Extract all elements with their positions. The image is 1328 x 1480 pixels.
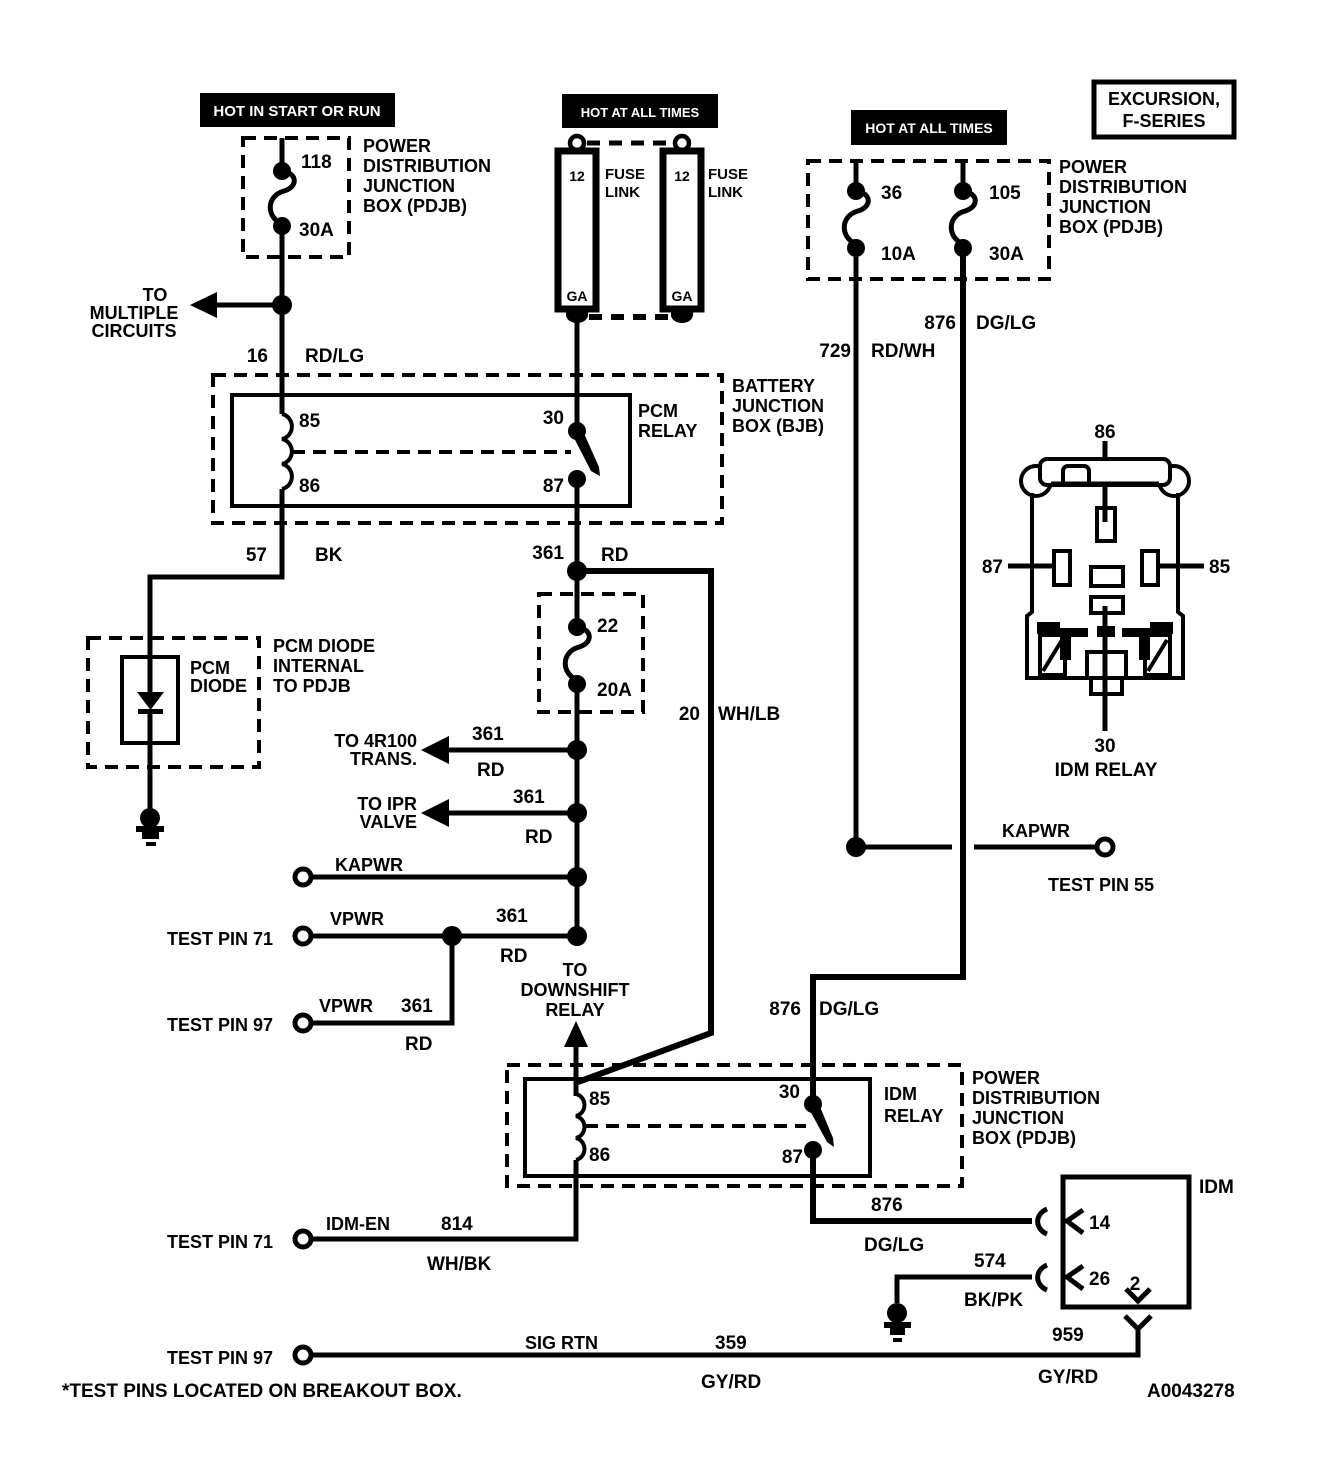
wire to IPR valve with arrowhead: [440, 811, 577, 816]
PCM relay switch pin 87: [568, 470, 586, 488]
fuse link 1 (12 GA): [558, 136, 596, 323]
svg-text:361: 361: [513, 787, 545, 808]
TEST PIN 55 connector circle: [1097, 839, 1113, 855]
svg-text:86: 86: [1094, 422, 1115, 443]
fuse F22 element: [565, 618, 589, 693]
PCM relay switch pin 30: [568, 422, 586, 440]
wire from fuse 118 down to PCM relay pin 85: [280, 226, 285, 414]
svg-text:LINK: LINK: [605, 184, 640, 201]
svg-text:PCM: PCM: [190, 658, 230, 678]
IDM relay switch blade: [808, 1102, 834, 1147]
pin 87 slot: [1054, 551, 1070, 585]
svg-text:87: 87: [543, 476, 564, 497]
svg-text:12: 12: [569, 168, 585, 184]
svg-text:HOT AT ALL TIMES: HOT AT ALL TIMES: [865, 120, 993, 136]
ground (PCM diode): [136, 808, 164, 846]
svg-text:359: 359: [715, 1333, 747, 1354]
wire to downshift relay with up arrowhead: [564, 1021, 588, 1047]
svg-text:26: 26: [1089, 1269, 1110, 1290]
IDM box: [1063, 1177, 1189, 1307]
wire IDM relay pin 87 to IDM pin 14 (876 DG/LG): [813, 1150, 1032, 1221]
svg-text:BOX (PDJB): BOX (PDJB): [1059, 217, 1163, 237]
bracket right black tab: [1150, 622, 1173, 634]
svg-text:TO: TO: [143, 285, 168, 305]
svg-text:36: 36: [881, 183, 902, 204]
svg-text:GY/RD: GY/RD: [701, 1372, 761, 1393]
svg-text:959: 959: [1052, 1325, 1084, 1346]
fuse link 2 (12 GA): [663, 136, 701, 323]
svg-text:85: 85: [299, 411, 321, 432]
wire 574 BK/PK to pin 26: [897, 1277, 1032, 1303]
SECTION: IDM relay pictorial (connector view): [982, 422, 1231, 781]
label BATTERY JUNCTION BOX (BJB): [732, 376, 824, 436]
center slot: [1091, 567, 1123, 586]
svg-text:574: 574: [974, 1251, 1006, 1272]
svg-text:VALVE: VALVE: [360, 812, 417, 832]
svg-text:20: 20: [679, 704, 700, 725]
svg-text:16: 16: [247, 346, 268, 367]
PCM relay coil: [282, 414, 292, 489]
svg-text:DG/LG: DG/LG: [819, 999, 879, 1020]
banner HOT AT ALL TIMES (right): [851, 110, 1007, 145]
wire BIG RTN 359 GY/RD: [312, 1327, 1138, 1355]
svg-text:RELAY: RELAY: [545, 1000, 604, 1020]
svg-text:VPWR: VPWR: [330, 909, 384, 929]
fuse F105 top stub: [961, 161, 966, 192]
svg-text:30: 30: [543, 408, 564, 429]
svg-text:22: 22: [597, 616, 618, 637]
svg-text:GA: GA: [567, 288, 588, 304]
label POWER DISTRIBUTION JUNCTION BOX (PDJB) bottom: [972, 1068, 1100, 1148]
svg-text:PCM: PCM: [638, 401, 678, 421]
svg-text:FUSE: FUSE: [708, 166, 748, 183]
node junction KAPWR right: [846, 837, 866, 857]
node junction 361: [567, 561, 587, 581]
svg-text:TEST PIN 71: TEST PIN 71: [167, 929, 273, 949]
svg-text:10A: 10A: [881, 244, 916, 265]
svg-text:TRANS.: TRANS.: [350, 749, 417, 769]
svg-text:JUNCTION: JUNCTION: [363, 176, 455, 196]
svg-text:F-SERIES: F-SERIES: [1122, 111, 1205, 131]
svg-text:GY/RD: GY/RD: [1038, 1367, 1098, 1388]
svg-text:KAPWR: KAPWR: [335, 855, 403, 875]
svg-text:87: 87: [982, 557, 1003, 578]
fuse F105 element: [951, 182, 975, 257]
label POWER DISTRIBUTION JUNCTION BOX (PDJB): [363, 136, 491, 216]
battery junction box BJB (dashed): [213, 375, 722, 523]
svg-text:TO 4R100: TO 4R100: [334, 731, 417, 751]
banner HOT AT ALL TIMES (middle): [562, 94, 718, 128]
svg-text:361: 361: [401, 996, 433, 1017]
svg-text:30: 30: [1094, 736, 1115, 757]
TEST PIN 71 connector circle (bottom): [295, 1231, 311, 1247]
svg-text:RELAY: RELAY: [884, 1106, 943, 1126]
svg-text:876: 876: [924, 313, 956, 334]
svg-text:85: 85: [589, 1089, 611, 1110]
cap cross line: [1051, 482, 1159, 487]
svg-text:57: 57: [246, 545, 267, 566]
svg-text:MULTIPLE: MULTIPLE: [90, 303, 179, 323]
dashed bus between fuse link tops: [587, 141, 672, 146]
svg-text:VPWR: VPWR: [319, 996, 373, 1016]
TEST PIN 97 connector circle (bottom): [295, 1347, 311, 1363]
svg-text:RD: RD: [500, 946, 527, 967]
wire fuse 118 top stub: [280, 138, 285, 172]
svg-text:BATTERY: BATTERY: [732, 376, 815, 396]
svg-text:IDM RELAY: IDM RELAY: [1055, 760, 1158, 781]
svg-text:EXCURSION,: EXCURSION,: [1108, 89, 1220, 109]
bracket right hatch box: [1145, 635, 1170, 675]
svg-text:DOWNSHIFT: DOWNSHIFT: [521, 980, 630, 1000]
relay cap ears: [1021, 466, 1051, 496]
center tab: [1087, 652, 1126, 694]
svg-text:105: 105: [989, 183, 1021, 204]
diode symbol: [137, 692, 164, 710]
wire PCM relay pin 86 down (57 BK): [150, 489, 282, 660]
PCM relay box: [232, 395, 630, 506]
bracket left black tab: [1037, 622, 1060, 634]
node junction to 4R100: [567, 740, 587, 760]
svg-text:BOX (PDJB): BOX (PDJB): [363, 196, 467, 216]
pin 86 slot: [1097, 508, 1115, 541]
svg-text:876: 876: [769, 999, 801, 1020]
svg-text:361: 361: [472, 724, 504, 745]
node junction to IPR: [567, 803, 587, 823]
relay cap lid: [1040, 459, 1170, 485]
svg-text:814: 814: [441, 1214, 473, 1235]
IDM relay switch pin 87: [804, 1141, 822, 1159]
svg-text:IDM-EN: IDM-EN: [326, 1214, 390, 1234]
svg-text:12: 12: [674, 168, 690, 184]
PCM diode solid box: [122, 657, 178, 743]
TEST PIN 71 connector circle: [295, 928, 311, 944]
svg-text:87: 87: [782, 1147, 803, 1168]
banner HOT IN START OR RUN: [200, 93, 395, 127]
svg-text:A0043278: A0043278: [1147, 1381, 1235, 1402]
svg-text:30A: 30A: [989, 244, 1024, 265]
svg-text:*TEST PINS LOCATED ON BREAKOUT: *TEST PINS LOCATED ON BREAKOUT BOX.: [62, 1381, 462, 1402]
bracket left inner black: [1060, 628, 1088, 637]
EXCURSION F-SERIES box: [1094, 82, 1234, 137]
svg-text:JUNCTION: JUNCTION: [1059, 197, 1151, 217]
pin 85 lead: [1158, 564, 1204, 569]
svg-text:GA: GA: [672, 288, 693, 304]
wire 361 RD main run below fuse 22: [575, 684, 580, 936]
KAPWR stub connector circle: [295, 869, 311, 885]
node junction KAPWR: [567, 867, 587, 887]
svg-text:86: 86: [299, 476, 320, 497]
svg-text:HOT AT ALL TIMES: HOT AT ALL TIMES: [581, 105, 700, 120]
TEST PIN 97 connector circle: [295, 1015, 311, 1031]
svg-text:CIRCUITS: CIRCUITS: [92, 321, 177, 341]
svg-text:361: 361: [496, 906, 528, 927]
svg-text:20A: 20A: [597, 680, 632, 701]
svg-text:POWER: POWER: [363, 136, 431, 156]
fuse F118 element: [270, 162, 294, 235]
svg-text:INTERNAL: INTERNAL: [273, 656, 364, 676]
svg-text:RD/WH: RD/WH: [871, 341, 935, 362]
svg-text:TEST PIN 71: TEST PIN 71: [167, 1232, 273, 1252]
pin 87 lead: [1008, 564, 1054, 569]
svg-text:KAPWR: KAPWR: [1002, 821, 1070, 841]
svg-text:RD: RD: [405, 1034, 432, 1055]
svg-text:WH/BK: WH/BK: [427, 1254, 492, 1275]
label TO MULTIPLE CIRCUITS: [90, 285, 179, 341]
svg-text:DIODE: DIODE: [190, 676, 247, 696]
svg-text:DISTRIBUTION: DISTRIBUTION: [363, 156, 491, 176]
bracket center blob: [1097, 626, 1115, 637]
label POWER DISTRIBUTION JUNCTION BOX (PDJB) right: [1059, 157, 1187, 237]
svg-text:DISTRIBUTION: DISTRIBUTION: [1059, 177, 1187, 197]
svg-text:RD: RD: [601, 545, 628, 566]
svg-text:DG/LG: DG/LG: [976, 313, 1036, 334]
wire from fuse link down to PCM relay pin 30: [575, 322, 580, 431]
svg-text:RD/LG: RD/LG: [305, 346, 364, 367]
wire diode to ground: [148, 712, 153, 812]
connector arc pin 26: [1038, 1265, 1047, 1290]
ground (574 BK/PK): [884, 1303, 911, 1342]
IDM relay coil: [576, 1094, 584, 1160]
wire 876 DG/LG from fuse 105 down to IDM relay pin 30: [813, 248, 963, 1104]
svg-text:876: 876: [871, 1195, 903, 1216]
svg-text:JUNCTION: JUNCTION: [732, 396, 824, 416]
svg-text:WH/LB: WH/LB: [718, 704, 780, 725]
svg-text:TO: TO: [563, 960, 588, 980]
chevron pin 26: [1067, 1266, 1083, 1289]
relay internal dashed link: [292, 450, 571, 454]
node junction VPWR tap: [442, 926, 462, 946]
label PCM DIODE INTERNAL TO PDJB: [273, 636, 375, 696]
svg-text:TO IPR: TO IPR: [357, 794, 417, 814]
svg-text:86: 86: [589, 1145, 610, 1166]
fuse F36 top stub: [854, 161, 859, 192]
svg-text:POWER: POWER: [972, 1068, 1040, 1088]
svg-text:30: 30: [779, 1082, 800, 1103]
svg-text:14: 14: [1089, 1213, 1111, 1234]
svg-text:RELAY: RELAY: [638, 421, 697, 441]
pin 30 lead: [1103, 606, 1108, 731]
svg-text:TEST PIN 55: TEST PIN 55: [1048, 875, 1154, 895]
svg-text:TEST PIN 97: TEST PIN 97: [167, 1015, 273, 1035]
bracket left hatch box: [1040, 635, 1065, 675]
svg-text:HOT IN START OR RUN: HOT IN START OR RUN: [213, 103, 380, 120]
svg-text:361: 361: [532, 543, 564, 564]
PCM diode dashed box: [88, 638, 259, 767]
lower slot: [1091, 597, 1123, 613]
svg-text:729: 729: [819, 341, 851, 362]
svg-text:BOX (BJB): BOX (BJB): [732, 416, 824, 436]
svg-text:JUNCTION: JUNCTION: [972, 1108, 1064, 1128]
chevron pin 2 (below box): [1125, 1316, 1151, 1329]
chevron pin 2 (at box bottom): [1126, 1289, 1150, 1301]
svg-text:85: 85: [1209, 557, 1231, 578]
wire 20 WH/LB branch (to IDM relay coil): [577, 571, 711, 1082]
wire VPWR (test pin 71): [312, 934, 577, 939]
cap notch: [1063, 466, 1089, 483]
dashed bus between fuse link bottoms: [589, 314, 670, 320]
bracket right inner black: [1122, 628, 1150, 637]
svg-text:118: 118: [301, 152, 332, 173]
wire KAPWR: [312, 875, 577, 880]
svg-text:BK: BK: [315, 545, 343, 566]
IDM relay switch pin 30: [804, 1095, 822, 1113]
relay internal dashed link: [585, 1124, 806, 1128]
IDM power distribution junction box (dashed): [507, 1065, 962, 1186]
svg-text:LINK: LINK: [708, 184, 743, 201]
svg-text:DISTRIBUTION: DISTRIBUTION: [972, 1088, 1100, 1108]
svg-text:TO PDJB: TO PDJB: [273, 676, 351, 696]
svg-text:FUSE: FUSE: [605, 166, 645, 183]
svg-text:TEST PIN 97: TEST PIN 97: [167, 1348, 273, 1368]
wire to 4R100 trans with arrowhead: [440, 748, 577, 753]
pin 86 lead: [1103, 441, 1108, 522]
wire VPWR to test pin 97: [312, 936, 452, 1023]
fuse F36 element: [844, 182, 868, 257]
svg-text:BK/PK: BK/PK: [964, 1290, 1023, 1311]
svg-text:PCM DIODE: PCM DIODE: [273, 636, 375, 656]
svg-text:IDM: IDM: [884, 1084, 917, 1104]
svg-text:30A: 30A: [299, 220, 334, 241]
svg-text:RD: RD: [525, 827, 552, 848]
svg-text:RD: RD: [477, 760, 504, 781]
power distribution junction box (right, dashed): [808, 161, 1049, 279]
svg-text:IDM: IDM: [1199, 1177, 1234, 1198]
fuse 22 dashed box: [539, 594, 643, 712]
node junction to multiple circuits: [272, 295, 292, 315]
pin 85 slot: [1142, 551, 1158, 585]
connector arc pin 14: [1038, 1209, 1047, 1234]
svg-text:POWER: POWER: [1059, 157, 1127, 177]
wire to multiple circuits with arrowhead: [212, 303, 282, 308]
wire into diode: [148, 655, 153, 695]
power distribution junction box (PDJB top-left, dashed): [243, 138, 349, 257]
svg-text:BOX (PDJB): BOX (PDJB): [972, 1128, 1076, 1148]
wire 729 RD/WH from fuse 36: [854, 248, 859, 847]
IDM relay box: [525, 1079, 870, 1176]
wire KAPWR to test pin 55 (with crossover gap): [856, 845, 952, 850]
wire PCM relay pin 87 down (361 RD): [575, 479, 580, 630]
node junction VPWR: [567, 926, 587, 946]
svg-text:DG/LG: DG/LG: [864, 1235, 924, 1256]
wire IDM relay pin 86 to test pin 71: [312, 1160, 576, 1239]
svg-text:SIG RTN: SIG RTN: [525, 1333, 598, 1353]
PCM relay switch blade: [572, 429, 600, 476]
label TO DOWNSHIFT RELAY: [521, 960, 630, 1020]
relay body: [1027, 493, 1183, 678]
chevron pin 14: [1067, 1210, 1083, 1233]
